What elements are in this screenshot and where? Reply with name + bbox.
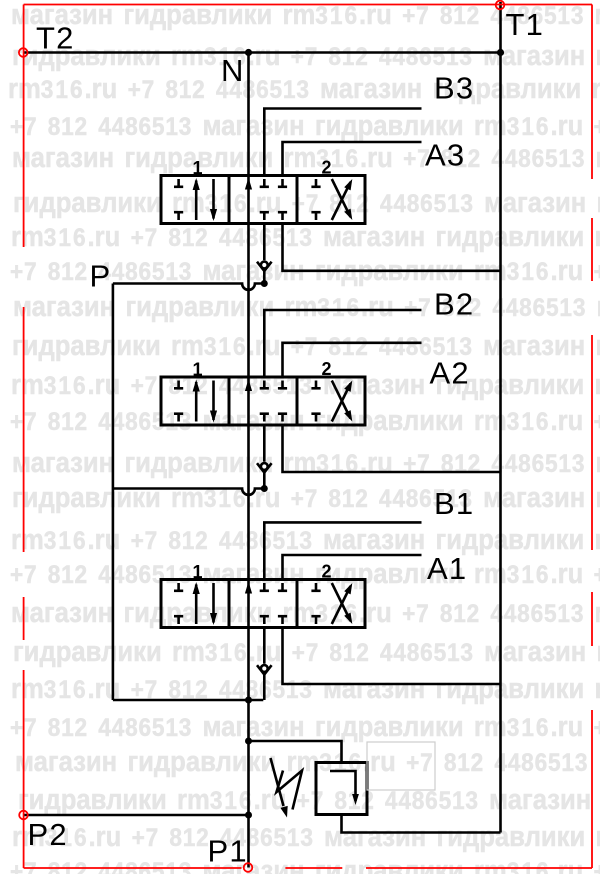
valve U3 cell2 blocked ports <box>263 179 266 187</box>
wire port B2 line <box>264 310 421 377</box>
valve U2 cell1 down arrow <box>212 381 215 421</box>
frame left border <box>23 5 25 248</box>
valve U1 cell1 up arrow <box>195 585 198 625</box>
wire P branch 1 joining N line <box>113 699 263 702</box>
wire port B1 line <box>264 522 421 579</box>
wire port A1 line <box>283 555 422 580</box>
svg-text:2: 2 <box>321 359 331 379</box>
svg-text:2: 2 <box>321 158 331 178</box>
port mark P2 <box>19 811 28 820</box>
valve U2 cell1 up arrow <box>195 382 198 422</box>
valve U3 cell1 down arrow <box>212 179 215 219</box>
node junction N on top rail <box>245 49 252 56</box>
frame bottom border <box>24 867 242 869</box>
frame right border <box>591 5 593 180</box>
svg-text:N: N <box>221 53 245 88</box>
frame top border <box>24 4 592 6</box>
port mark T1 <box>496 1 505 10</box>
relief valve RV1 spring <box>277 771 303 810</box>
valve U2 cell2 blocked ports <box>263 381 266 389</box>
wire tank return U3 <box>283 224 501 271</box>
svg-text:1: 1 <box>192 360 202 380</box>
wire P2 line <box>24 814 249 817</box>
svg-text:T2: T2 <box>36 21 75 56</box>
svg-text:2: 2 <box>321 562 331 582</box>
relief valve RV1 internal flow path <box>330 771 356 801</box>
port mark T2 <box>19 48 28 57</box>
valve U3 cell1 blocked ports <box>177 179 180 187</box>
wire P supply rail <box>112 284 115 701</box>
valve U3 cell3 crossed arrows <box>332 182 351 220</box>
relief valve RV1 adjustment arrow <box>271 758 284 806</box>
valve U1 cell1 down arrow <box>212 583 215 623</box>
wire port B3 line <box>264 109 421 176</box>
valve U2 cell3 blocked ports <box>315 381 318 389</box>
valve U1 cell1 blocked ports <box>177 583 180 591</box>
wire relief outlet to tank rail <box>342 815 501 833</box>
svg-text:1: 1 <box>192 562 202 582</box>
node junction CV2 outlet <box>261 485 268 492</box>
svg-text:B2: B2 <box>434 287 474 322</box>
valve U3 cell2 neutral up arrow <box>245 178 252 190</box>
svg-text:B1: B1 <box>434 486 474 521</box>
port mark P1 <box>244 863 253 872</box>
check valve CV2 <box>263 425 266 462</box>
relief valve RV1 body <box>316 763 367 815</box>
svg-text:T1: T1 <box>506 7 545 42</box>
wire N neutral line vertical <box>247 53 250 868</box>
wire relief branch <box>249 741 342 763</box>
valve U2 outline <box>161 377 365 425</box>
svg-text:1: 1 <box>192 158 202 178</box>
svg-text:B3: B3 <box>434 71 474 106</box>
wire T1 right tank rail <box>499 2 502 833</box>
valve U2 cell2 neutral up arrow <box>245 379 252 391</box>
valve U1 cell3 crossed arrows <box>332 586 351 624</box>
node junction relief branch <box>245 738 252 745</box>
svg-text:A3: A3 <box>425 138 465 173</box>
wire tank return U1 <box>283 628 501 685</box>
svg-text:P2: P2 <box>28 817 68 852</box>
svg-text:A2: A2 <box>430 356 470 391</box>
valve U2 cell1 blocked ports <box>177 381 180 389</box>
check valve CV1 <box>263 628 266 664</box>
node junction P-N join <box>245 697 252 704</box>
valve U1 outline <box>161 580 365 628</box>
svg-text:A1: A1 <box>427 551 467 586</box>
wire tank return U2 <box>283 425 501 472</box>
valve U1 cell3 blocked ports <box>315 583 318 591</box>
svg-text:P: P <box>90 259 112 294</box>
valve U2 cell3 crossed arrows <box>332 384 351 422</box>
wire T2 top rail <box>23 51 500 54</box>
check valve CV3 <box>263 224 266 261</box>
relief valve pilot ghost box <box>367 742 435 790</box>
valve U1 cell2 neutral up arrow <box>245 582 252 594</box>
valve U3 outline <box>161 176 365 224</box>
wire port A3 line <box>283 142 422 176</box>
node junction T1 rail top <box>497 49 504 56</box>
valve U3 cell1 up arrow <box>195 181 198 221</box>
wire P branch 3 with hop over N line <box>113 284 264 290</box>
svg-text:P1: P1 <box>208 834 248 869</box>
wire port A2 line <box>283 343 422 377</box>
valve U3 cell3 blocked ports <box>315 179 318 187</box>
valve U1 cell2 blocked ports <box>263 583 266 591</box>
node junction P2-N <box>245 812 252 819</box>
node junction CV3 outlet <box>261 280 268 287</box>
wire P branch 2 with hop over N line <box>113 488 264 494</box>
